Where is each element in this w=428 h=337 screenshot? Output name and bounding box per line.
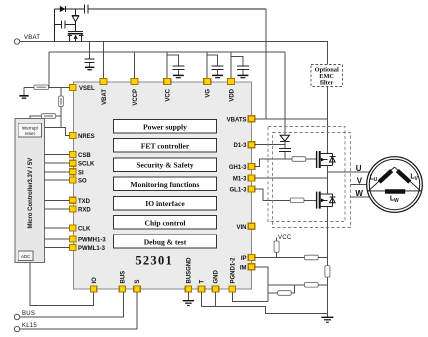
- wire bus left drop to VSEL: [48, 52, 50, 88]
- zener Z1: [72, 9, 79, 32]
- pin IP: [241, 255, 255, 263]
- svg-text:VBATS: VBATS: [227, 117, 247, 123]
- svg-text:T: T: [200, 280, 206, 284]
- wire top line to right vertical: [88, 8, 266, 10]
- svg-text:RXD: RXD: [78, 207, 91, 213]
- svg-text:Power supply: Power supply: [143, 122, 187, 131]
- pin VG top: [204, 79, 212, 98]
- pin GND bottom: [212, 270, 219, 293]
- pin PGND1-2 bottom: [229, 257, 236, 292]
- wire MCU to RXD: [45, 208, 70, 210]
- svg-text:M1-3: M1-3: [233, 177, 247, 183]
- svg-text:VBAT: VBAT: [102, 89, 108, 105]
- svg-text:52301: 52301: [135, 253, 173, 267]
- svg-text:VCC: VCC: [166, 88, 172, 101]
- capacitor C4 on VCC: [167, 55, 184, 78]
- pin TXD: [70, 197, 91, 205]
- wire supply bus: [49, 51, 285, 53]
- wire KL15 to S pin: [20, 292, 137, 329]
- wire gate low to Q3: [304, 199, 316, 201]
- capacitor C5 on VG: [207, 55, 223, 78]
- wire ground bus bottom: [202, 307, 328, 314]
- wire IP to shunt top: [318, 257, 327, 259]
- resistor R9 gate high: [292, 157, 306, 162]
- resistor R6 IP filter: [304, 255, 318, 260]
- wire right vertical to VBATS line: [265, 9, 267, 119]
- wire IM line: [255, 267, 268, 302]
- svg-text:IP: IP: [241, 256, 247, 262]
- svg-text:TXD: TXD: [78, 199, 91, 205]
- wire PGND to sense node: [232, 292, 267, 301]
- svg-text:filter: filter: [320, 79, 334, 86]
- wire IM branch: [268, 284, 305, 286]
- svg-text:U: U: [356, 164, 362, 173]
- wire VBAT rail drop to bridge drain: [327, 42, 329, 65]
- wire MCU to SO: [45, 179, 70, 181]
- capacitor C2: [54, 21, 75, 29]
- pin SO: [70, 177, 88, 185]
- svg-text:VDD: VDD: [230, 88, 236, 101]
- svg-text:Monitoring functions: Monitoring functions: [131, 180, 200, 189]
- wire W phase stub: [351, 196, 370, 198]
- svg-text:Micro Controller: Micro Controller: [28, 181, 34, 228]
- wire MCU to TXD: [45, 199, 70, 201]
- transistor Q3 low-side FET: [317, 192, 336, 209]
- wire VDD pin vertical: [230, 52, 232, 80]
- svg-text:CSB: CSB: [78, 153, 91, 159]
- pin T bottom: [198, 280, 205, 293]
- capacitor C1: [85, 5, 88, 14]
- wire charge-pump left vertical: [53, 9, 55, 42]
- diode D1: [60, 6, 66, 12]
- svg-text:VG: VG: [206, 89, 212, 98]
- svg-text:U: U: [374, 177, 378, 183]
- pin RXD: [70, 206, 92, 214]
- wire V phase stub: [351, 184, 367, 186]
- EMC filter box: [311, 65, 343, 87]
- function box FET controller: [114, 139, 217, 153]
- wire VBAT pin vertical: [103, 42, 105, 80]
- svg-text:W: W: [394, 198, 399, 204]
- dashed bridge box outer: [273, 133, 351, 228]
- svg-text:BUS: BUS: [121, 271, 127, 284]
- svg-text:PGND1-2: PGND1-2: [231, 257, 237, 284]
- function box Debug & test: [114, 235, 217, 249]
- svg-text:BUS: BUS: [22, 311, 35, 317]
- pin IM: [240, 264, 255, 272]
- terminal KL15: [14, 323, 37, 332]
- svg-text:VBAT: VBAT: [24, 35, 40, 41]
- resistor R2 divider top: [59, 87, 64, 127]
- resistor R1 pull-down on VSEL: [24, 85, 70, 90]
- pin VSEL: [70, 85, 96, 93]
- resistor R10 gate low: [290, 198, 304, 203]
- pin PWMH1-3: [70, 236, 107, 244]
- wire VG pin vertical: [206, 52, 208, 80]
- svg-text:GND: GND: [214, 270, 220, 284]
- motor M1: [367, 157, 423, 213]
- svg-text:PWML1-3: PWML1-3: [78, 246, 106, 252]
- wire GND pin down: [215, 292, 217, 307]
- svg-text:VCC: VCC: [278, 235, 292, 241]
- wire T pin down: [201, 292, 203, 307]
- wire MCU to PWMH1-3: [45, 238, 70, 240]
- function box Power supply: [114, 120, 217, 134]
- wire gate high to Q2: [306, 158, 316, 160]
- pin D1-3: [233, 142, 254, 150]
- resistor R5 IM filter: [304, 283, 318, 288]
- IC U1 52301 body: [74, 82, 252, 289]
- pin VIN: [236, 223, 254, 231]
- wire MCU to PWML1-3: [45, 247, 70, 249]
- pin M1-3: [233, 175, 255, 183]
- svg-text:VSEL: VSEL: [79, 86, 95, 92]
- wire BUS to BUS pin: [20, 292, 124, 317]
- wire phase node vertical: [326, 166, 328, 194]
- pin SCLK: [70, 160, 96, 168]
- terminal VBAT: [14, 35, 40, 44]
- interrupt reset box: [18, 123, 41, 137]
- pin S bottom: [134, 279, 141, 292]
- capacitor C7 bootstrap: [279, 149, 291, 159]
- wire IP line: [255, 257, 305, 259]
- svg-text:Debug & test: Debug & test: [144, 238, 187, 247]
- wire bus right drop to zener Z2: [284, 52, 286, 135]
- wire charge-pump top: [54, 8, 84, 10]
- wire VBATS line: [255, 118, 328, 120]
- pin VBAT top: [100, 79, 108, 105]
- pin VCCP top: [131, 79, 139, 106]
- dashed bridge box inner: [268, 127, 345, 222]
- function box IO interface: [114, 196, 217, 210]
- svg-text:S: S: [135, 279, 141, 283]
- svg-text:FET controller: FET controller: [141, 142, 190, 151]
- function box Chip control: [114, 216, 217, 230]
- pin BUS bottom: [119, 271, 126, 292]
- svg-text:W: W: [355, 189, 363, 198]
- wire MCU to SCLK: [45, 162, 70, 164]
- ground for R1: [19, 87, 28, 98]
- wire MCU to CSB: [45, 154, 70, 156]
- wire Q3 source down to shunt: [326, 206, 328, 265]
- ground at BUSGND: [183, 292, 194, 306]
- winding LU: [370, 171, 392, 183]
- pin IO bottom: [90, 277, 97, 292]
- wire U phase to motor: [327, 171, 370, 173]
- pin SI: [70, 169, 85, 177]
- svg-text:reset: reset: [25, 131, 36, 136]
- svg-text:3.3V / 5V: 3.3V / 5V: [28, 158, 34, 183]
- svg-text:IO: IO: [92, 277, 98, 284]
- svg-text:KL15: KL15: [22, 323, 37, 329]
- wire VBAT rail: [20, 41, 328, 43]
- wire D1-3 line: [255, 144, 285, 146]
- svg-text:SO: SO: [78, 179, 87, 185]
- terminal BUS: [14, 311, 35, 320]
- wire MCU to SI: [45, 171, 70, 173]
- wire NRES to interrupt reset box: [41, 128, 69, 136]
- resistor R3 to reset box: [30, 114, 61, 124]
- svg-text:CLK: CLK: [78, 227, 91, 233]
- winding LW: [385, 192, 405, 204]
- svg-text:SCLK: SCLK: [78, 162, 95, 168]
- svg-text:NRES: NRES: [78, 134, 95, 140]
- svg-text:SI: SI: [78, 170, 84, 176]
- function box Monitoring functions: [114, 177, 217, 191]
- wire ADC to IO pin: [30, 263, 94, 306]
- wire GH1-3 to gate resistor: [255, 159, 292, 167]
- svg-text:ADC: ADC: [21, 254, 30, 259]
- svg-text:IO interface: IO interface: [145, 199, 185, 208]
- transistor Q2 high-side FET: [317, 151, 336, 168]
- pin PWML1-3: [70, 245, 106, 253]
- svg-text:VCCP: VCCP: [133, 89, 139, 106]
- wire GL1-3 to gate resistor: [255, 189, 291, 200]
- pin GH1-3: [229, 164, 255, 172]
- svg-text:GL1-3: GL1-3: [229, 188, 247, 194]
- svg-text:IM: IM: [240, 265, 247, 271]
- capacitor C6 on VDD: [231, 57, 249, 78]
- resistor R4 filter: [268, 285, 295, 296]
- winding LV: [397, 171, 418, 182]
- resistor R7 VCC pull-up: [274, 238, 279, 258]
- svg-text:Security & Safety: Security & Safety: [136, 161, 194, 170]
- ground for C3: [85, 67, 94, 69]
- svg-text:VIN: VIN: [236, 225, 246, 231]
- ADC box: [18, 251, 33, 261]
- winding delta wires: [368, 167, 420, 191]
- pin VBATS: [227, 116, 255, 124]
- pin VCC top: [164, 79, 172, 102]
- svg-text:interrupt: interrupt: [22, 126, 39, 131]
- svg-text:D1-3: D1-3: [233, 143, 247, 149]
- microcontroller U2: [15, 119, 45, 263]
- pin BUSGND bottom: [185, 257, 192, 292]
- pin CLK: [70, 225, 91, 233]
- pin VDD top: [228, 79, 236, 102]
- wire VCCP pin vertical: [134, 52, 136, 80]
- svg-text:GH1-3: GH1-3: [229, 165, 247, 171]
- capacitor C3 VBAT decoupling: [85, 42, 95, 68]
- pin GL1-3: [229, 186, 254, 194]
- svg-text:PWMH1-3: PWMH1-3: [78, 238, 106, 244]
- zener Z2: [280, 135, 290, 148]
- shunt resistor RS: [325, 258, 330, 318]
- wire VCC pin vertical: [166, 52, 168, 80]
- wire IM to shunt bottom: [318, 284, 327, 286]
- transistor Q1 reverse-protection FET: [68, 32, 84, 42]
- svg-text:Chip control: Chip control: [145, 218, 186, 227]
- svg-text:V: V: [357, 177, 363, 186]
- ground main power: [321, 317, 333, 322]
- pin NRES: [70, 133, 95, 141]
- wire MCU to CLK: [45, 227, 70, 229]
- svg-text:BUSGND: BUSGND: [187, 257, 193, 284]
- pin CSB: [70, 152, 92, 160]
- function box Security & Safety: [114, 158, 217, 172]
- wire M1-3 phase line: [255, 177, 328, 179]
